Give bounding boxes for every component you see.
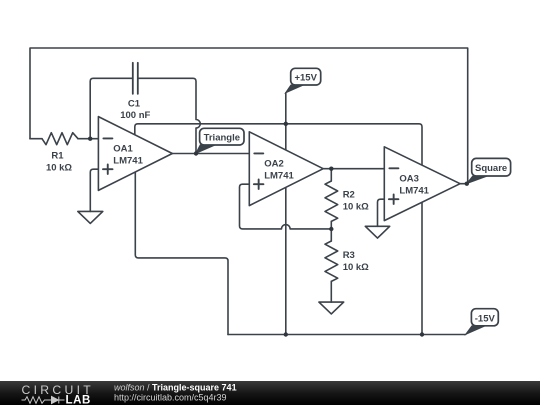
svg-text:LM741: LM741 xyxy=(264,171,294,182)
wire OA3 non-inverting input to ground xyxy=(378,199,385,226)
wire R1 to OA1 inverting input xyxy=(78,138,98,140)
svg-text:LM741: LM741 xyxy=(113,156,143,167)
wire capacitor branch up from node A xyxy=(90,78,133,138)
svg-text:Square: Square xyxy=(475,163,507,174)
wire R1 left lead xyxy=(30,138,42,140)
wire R3 top lead xyxy=(330,229,332,241)
label R1 value xyxy=(46,151,72,174)
wire OA3 V- down to negative rail xyxy=(421,201,423,335)
junction node R2/R3 divider xyxy=(329,227,333,231)
wire capacitor right lead down to OA1 output with hop over +15V rail xyxy=(138,78,201,153)
node Triangle flag xyxy=(196,128,244,153)
capacitor C1 xyxy=(133,63,138,94)
resistor R2 xyxy=(325,181,338,221)
svg-text:C1: C1 xyxy=(128,99,141,110)
svg-text:OA2: OA2 xyxy=(264,159,284,170)
svg-text:10 kΩ: 10 kΩ xyxy=(343,262,369,273)
junction node OA1 output / Triangle xyxy=(194,151,198,155)
svg-text:LAB: LAB xyxy=(66,395,91,405)
ground for OA1 input xyxy=(78,211,103,223)
resistor R3 xyxy=(325,241,338,281)
wire +15V flag tail down through rail into OA2 V+ xyxy=(285,93,287,155)
svg-text:+15V: +15V xyxy=(294,73,317,84)
svg-text:OA1: OA1 xyxy=(113,143,133,154)
wire R3 to ground stem xyxy=(330,281,332,302)
node +15V flag xyxy=(286,68,321,93)
label R3 value xyxy=(343,250,369,273)
wire OA1 V- down and across to negative rail xyxy=(135,170,228,335)
node -15V flag xyxy=(466,309,499,335)
wire R2 bottom lead xyxy=(330,221,332,229)
svg-text:Triangle: Triangle xyxy=(204,133,240,144)
CircuitLab logo resistor-diode glyph xyxy=(22,397,65,404)
svg-text:R2: R2 xyxy=(343,189,355,200)
label C1 value xyxy=(120,99,150,121)
node Square flag xyxy=(467,158,511,183)
junction node +15V rail tap xyxy=(284,122,288,126)
svg-text:R3: R3 xyxy=(343,250,355,261)
ground for OA3 input xyxy=(365,226,389,238)
wire negative supply rail to -15V flag xyxy=(228,334,466,336)
op-amp OA3 xyxy=(384,147,460,221)
wire top feedback from OA3 output to R1 input xyxy=(30,48,468,184)
ground for R3 xyxy=(319,302,344,314)
svg-text:OA3: OA3 xyxy=(399,174,419,185)
op-amp OA2 xyxy=(249,132,323,206)
svg-text:10 kΩ: 10 kΩ xyxy=(343,201,369,212)
svg-text:wolfson / Triangle-square 741: wolfson / Triangle-square 741 xyxy=(114,382,237,392)
junction node OA2 output / R2 xyxy=(329,167,333,171)
wire +15V rail with V+ drops to OA1 and OA3 xyxy=(135,124,422,170)
label R2 value xyxy=(343,189,369,212)
junction node OA3 V- on rail xyxy=(420,332,424,336)
wire R2 top lead xyxy=(330,169,332,181)
svg-text:100 nF: 100 nF xyxy=(120,110,150,121)
wire OA2 V- down to negative rail xyxy=(285,186,287,335)
svg-text:-15V: -15V xyxy=(475,313,496,324)
svg-text:http://circuitlab.com/c5q4r39: http://circuitlab.com/c5q4r39 xyxy=(114,392,227,402)
junction node OA2 V- on rail xyxy=(284,332,288,336)
op-amp OA1 xyxy=(98,117,172,191)
wire OA2 non-inverting input loop to R2/R3 node with hop xyxy=(240,184,332,229)
footer bar xyxy=(0,381,540,405)
resistor R1 xyxy=(42,133,78,145)
junction node OA3 output / Square xyxy=(465,182,469,186)
wire OA3 output to feedback node xyxy=(460,183,468,185)
svg-text:10 kΩ: 10 kΩ xyxy=(46,162,72,173)
wire OA1 output to OA2 inverting input xyxy=(172,153,249,155)
wire OA2 output to OA3 inverting input xyxy=(323,168,384,170)
svg-text:LM741: LM741 xyxy=(399,186,429,197)
svg-text:R1: R1 xyxy=(51,151,64,162)
junction node R1/C1/OA1- xyxy=(88,137,92,141)
wire OA1 non-inverting input to ground xyxy=(90,169,98,211)
